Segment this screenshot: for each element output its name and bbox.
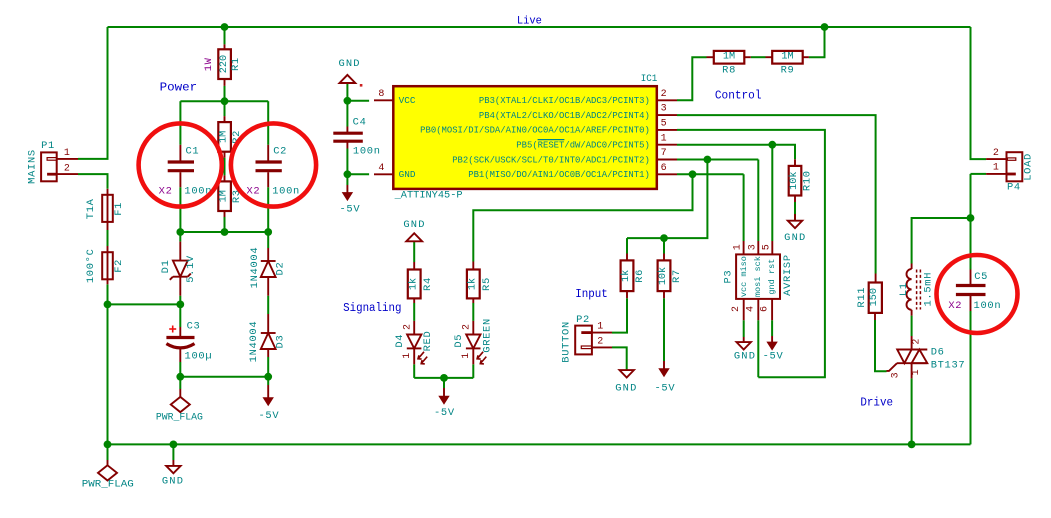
node VCC junction at C4 top	[344, 97, 352, 105]
wire R3 bottom	[224, 217, 226, 232]
svg-text:2: 2	[462, 324, 473, 330]
svg-text:P1: P1	[41, 140, 55, 152]
svg-text:2: 2	[661, 89, 667, 100]
svg-text:PB1(MISO/DO/AIN1/OC0B/OC1A/PCI: PB1(MISO/DO/AIN1/OC0B/OC1A/PCINT1)	[468, 169, 650, 180]
svg-text:C5: C5	[974, 271, 988, 283]
svg-text:1: 1	[597, 322, 603, 333]
power symbol -5V (below LEDs)	[443, 388, 445, 396]
resistor R10 10k	[794, 159, 796, 166]
wire R8-R9 link	[751, 56, 766, 58]
wire triac bottom	[911, 378, 913, 444]
svg-text:F1: F1	[113, 202, 125, 216]
svg-text:vcc miso: vcc miso	[739, 256, 749, 297]
wire C5 bottom column	[970, 311, 972, 444]
svg-text:D5: D5	[453, 334, 465, 348]
node LED -5V junction	[440, 374, 448, 382]
wire node row y304	[108, 303, 181, 305]
wire D1 top	[179, 232, 181, 242]
wire pin7 branch to input	[627, 160, 707, 239]
capacitor C3 100µ electrolytic	[179, 327, 181, 338]
svg-text:3: 3	[890, 372, 901, 378]
wire node row y232	[180, 231, 268, 233]
wire L1 bottom	[911, 316, 913, 336]
svg-text:RED: RED	[422, 331, 434, 352]
svg-text:LOAD: LOAD	[1023, 153, 1035, 181]
svg-text:100°C: 100°C	[85, 248, 97, 283]
svg-text:VCC: VCC	[399, 95, 416, 106]
svg-text:1: 1	[911, 369, 922, 375]
svg-text:1: 1	[64, 148, 70, 159]
ground GND (below P3)	[743, 337, 745, 342]
svg-text:P3: P3	[723, 270, 735, 284]
capacitor C1 X2 100n	[179, 145, 181, 161]
svg-text:GND: GND	[734, 351, 756, 363]
svg-text:D4: D4	[394, 334, 406, 348]
svg-text:D3: D3	[275, 335, 287, 349]
svg-text:PWR_FLAG: PWR_FLAG	[156, 412, 203, 423]
svg-text:_ATTINY45-P: _ATTINY45-P	[394, 191, 463, 202]
wire IC pin7	[677, 159, 758, 161]
svg-text:R1: R1	[230, 57, 242, 71]
svg-text:Signaling: Signaling	[343, 302, 401, 315]
wire P4 pin2 column	[971, 27, 987, 159]
wire P1 pin2 to fuse column	[78, 174, 108, 189]
svg-text:BT137: BT137	[931, 360, 966, 372]
wire IC pin3 to R11	[677, 115, 876, 273]
node triac bottom junction	[908, 441, 916, 449]
svg-text:10k: 10k	[788, 172, 800, 190]
resistor R7 10k	[663, 254, 665, 261]
svg-text:X2: X2	[159, 186, 173, 198]
svg-text:220: 220	[219, 55, 230, 73]
svg-text:1: 1	[461, 353, 472, 359]
svg-text:R8: R8	[722, 65, 736, 77]
pin 6 PB1 of IC1	[657, 173, 677, 175]
wire R6 to P2 pin1	[612, 298, 627, 332]
wire GND stem above R4	[413, 241, 415, 262]
svg-text:R10: R10	[802, 170, 814, 191]
triac D6 BT137	[911, 336, 913, 350]
node Live/R9 junction	[821, 23, 829, 31]
node D3/-5V junction	[264, 373, 272, 381]
svg-text:1M: 1M	[723, 51, 735, 62]
wire R5 bottom	[472, 303, 474, 321]
node R3 junction	[221, 228, 229, 236]
svg-text:1W: 1W	[203, 57, 215, 71]
wire AVRISP pin2 to GND	[743, 320, 745, 337]
node Live/R1 junction	[221, 23, 229, 31]
wire R2-R3 link	[224, 158, 226, 176]
svg-text:-5V: -5V	[258, 410, 279, 422]
wire R11 bottom to gate	[875, 320, 887, 371]
wire R9 to Live	[809, 27, 825, 57]
wire AVRISP pin4 to mosi run	[757, 320, 759, 377]
svg-text:Live: Live	[517, 15, 542, 27]
svg-text:5.1V: 5.1V	[185, 255, 197, 283]
node GND(-5V) junction at C4 bottom	[344, 170, 352, 178]
svg-text:1M: 1M	[219, 131, 230, 143]
resistor R8 1M	[707, 56, 714, 58]
ground GND (bottom-left)	[172, 460, 174, 466]
svg-text:R4: R4	[422, 277, 434, 291]
svg-text:1k: 1k	[407, 278, 419, 290]
resistor R6 1k	[626, 254, 628, 261]
node bottom rail PWR_FLAG junction	[104, 441, 112, 449]
svg-text:100n: 100n	[974, 300, 1002, 312]
diode D2 1N4004	[267, 248, 269, 262]
wire rst column	[771, 145, 773, 241]
node C5/L1 junction	[967, 214, 975, 222]
power flag PWR_FLAG (C3)	[179, 389, 181, 397]
svg-text:6: 6	[661, 163, 667, 174]
wire R10 bottom	[794, 202, 796, 221]
svg-text:150: 150	[869, 288, 880, 306]
svg-text:X2: X2	[246, 186, 260, 198]
svg-text:R5: R5	[481, 277, 493, 291]
svg-text:-5V: -5V	[339, 203, 360, 215]
wire D2 top	[267, 232, 269, 248]
svg-text:D1: D1	[160, 259, 172, 273]
svg-text:R11: R11	[856, 287, 868, 308]
fuse F1 T1A	[107, 189, 109, 195]
wire node row y376	[180, 376, 268, 378]
op IC U1: ATTINY45-P microcontroller IC1	[393, 86, 657, 189]
wire C4 -5V stem	[346, 174, 348, 185]
svg-text:X2: X2	[948, 300, 962, 312]
pin 1 PB5 of IC1	[657, 144, 677, 146]
svg-text:R9: R9	[781, 65, 795, 77]
svg-text:GND: GND	[399, 169, 416, 180]
svg-text:C3: C3	[187, 321, 201, 333]
wire R1 bottom lead	[224, 86, 226, 101]
svg-text:GND: GND	[615, 383, 637, 395]
svg-text:P2: P2	[576, 314, 590, 326]
wire IC pin1 to R10	[677, 145, 795, 160]
wire C1 bottom	[179, 187, 181, 232]
node fuse/neutral junction	[104, 301, 112, 309]
svg-text:-5V: -5V	[763, 351, 784, 363]
svg-text:PWR_FLAG: PWR_FLAG	[82, 479, 134, 490]
capacitor C4 100n	[346, 127, 348, 134]
svg-text:6: 6	[760, 306, 771, 312]
wire C3 bottom	[179, 362, 181, 377]
svg-text:2: 2	[64, 163, 70, 174]
capacitor C2 X2 100n	[267, 145, 269, 161]
node R1/R2 junction	[221, 97, 229, 105]
svg-text:GREEN: GREEN	[481, 318, 493, 353]
svg-text:100n: 100n	[353, 146, 381, 158]
svg-text:-5V: -5V	[654, 383, 675, 395]
wire C2 bottom	[267, 187, 269, 232]
pin 3 PB4 of IC1	[657, 114, 677, 116]
svg-text:1N4004: 1N4004	[248, 321, 260, 363]
wire D1 bottom	[179, 296, 181, 305]
wire R6 top lead	[626, 238, 628, 253]
svg-text:Drive: Drive	[860, 397, 893, 410]
svg-text:7: 7	[661, 148, 667, 159]
svg-text:GND: GND	[403, 219, 425, 231]
connector P2 BUTTON	[575, 326, 592, 355]
resistor R11 150	[875, 274, 877, 283]
resistor R2 1M	[224, 116, 226, 122]
svg-text:PB4(XTAL2/CLKO/OC1B/ADC2/PCINT: PB4(XTAL2/CLKO/OC1B/ADC2/PCINT4)	[479, 110, 650, 121]
wire D3 bottom	[267, 357, 269, 377]
wire left rail to P1 pin1	[78, 27, 108, 159]
svg-text:5: 5	[661, 119, 667, 130]
wire D5 bottom	[472, 364, 474, 378]
svg-text:R6: R6	[634, 269, 646, 283]
svg-text:mosi sck: mosi sck	[753, 256, 763, 297]
svg-text:BUTTON: BUTTON	[560, 321, 572, 363]
overline on RESET	[538, 139, 565, 141]
fuse F2 100°C thermal	[102, 252, 113, 279]
resistor R3 1M	[224, 175, 226, 181]
wire -5V stem below D3	[267, 377, 269, 385]
svg-text:P4: P4	[1007, 181, 1021, 193]
ground GND (below R10)	[794, 214, 796, 221]
wire AVRISP pin6 stem	[771, 320, 773, 336]
svg-text:Control: Control	[715, 90, 762, 103]
annotation circle around C2	[231, 123, 316, 206]
wire C4 GND stem	[346, 83, 348, 101]
svg-text:PB5(RESET/dW/ADC0/PCINT5): PB5(RESET/dW/ADC0/PCINT5)	[516, 140, 650, 151]
power symbol -5V (below C4)	[346, 185, 348, 193]
svg-text:GND: GND	[338, 58, 360, 70]
wire GND stem bottom-left	[172, 444, 174, 460]
wire bottom rail	[108, 443, 971, 445]
svg-text:C2: C2	[273, 146, 287, 158]
svg-text:3: 3	[661, 104, 667, 115]
wire R2 top	[224, 101, 226, 116]
wire R4 bottom	[413, 303, 415, 321]
wire D2-D3 link	[267, 296, 269, 314]
diode D3 1N4004	[267, 314, 269, 333]
inductor L1 1.5mH	[911, 264, 913, 270]
svg-text:1: 1	[993, 163, 999, 174]
svg-text:Input: Input	[575, 288, 608, 301]
resistor R9 1M	[766, 56, 773, 58]
power symbol -5V (below D3)	[267, 385, 269, 398]
node C1/D1 junction	[176, 228, 184, 236]
power flag PWR_FLAG (bottom-left)	[107, 460, 109, 465]
wire LED row	[414, 377, 473, 379]
wire IC pin6	[677, 173, 744, 175]
wire Live top rail	[108, 26, 971, 28]
wire C3 top	[179, 304, 181, 327]
svg-text:100n: 100n	[272, 186, 300, 198]
svg-text:PB3(XTAL1/CLKI/OC1B/ADC3/PCINT: PB3(XTAL1/CLKI/OC1B/ADC3/PCINT3)	[479, 95, 650, 106]
node C2/D2 junction	[264, 228, 272, 236]
capacitor C5 X2 100n	[970, 270, 972, 286]
svg-text:10k: 10k	[657, 267, 669, 285]
svg-text:1k: 1k	[620, 270, 632, 282]
ground GND (below P2)	[620, 370, 634, 377]
resistor R1 220 1W	[224, 44, 226, 49]
LED D5 GREEN	[472, 321, 474, 335]
svg-text:GND: GND	[162, 476, 184, 488]
wire C5 top column	[970, 174, 972, 270]
connector P1 MAINS	[41, 152, 57, 181]
svg-text:1: 1	[661, 133, 667, 144]
svg-text:100µ: 100µ	[185, 350, 213, 362]
svg-text:4: 4	[378, 163, 384, 174]
wire sck column	[757, 160, 759, 242]
wire IC pin8	[347, 100, 369, 102]
svg-text:L1: L1	[898, 282, 910, 296]
wire IC pin5 to AVRISP mosi	[677, 130, 825, 377]
svg-text:gnd rst: gnd rst	[767, 259, 777, 295]
svg-text:1.5mH: 1.5mH	[922, 272, 934, 307]
wire PWR_FLAG2 stem	[179, 377, 181, 389]
pin 5 PB0 of IC1	[657, 129, 677, 131]
svg-text:2: 2	[993, 148, 999, 159]
svg-text:IC1: IC1	[641, 73, 658, 85]
annotation circle around C5	[937, 255, 1018, 333]
svg-text:T1A: T1A	[85, 198, 97, 219]
svg-text:2: 2	[731, 306, 742, 312]
wire P2 pin2 to GND	[612, 347, 627, 370]
node pin6 junction	[689, 170, 697, 178]
svg-text:GND: GND	[784, 232, 806, 244]
svg-text:3: 3	[747, 244, 758, 250]
svg-text:F2: F2	[113, 259, 125, 273]
wire L1 top	[912, 218, 971, 264]
wire C4 bottom lead	[346, 149, 348, 175]
node pin1/rst junction	[768, 141, 776, 149]
node R7 junction	[660, 234, 668, 242]
annotation circle around C1	[139, 123, 222, 206]
svg-text:AVRISP: AVRISP	[782, 254, 794, 296]
wire miso column	[743, 174, 745, 241]
wire IC pin4	[347, 173, 369, 175]
node pin7 junction	[704, 156, 712, 164]
svg-text:1: 1	[402, 353, 413, 359]
wire node row y101	[180, 100, 268, 102]
wire R1 top lead	[224, 27, 226, 44]
node bottom rail GND junction	[170, 441, 178, 449]
wire R7 top lead	[663, 238, 665, 253]
svg-text:1: 1	[733, 244, 744, 250]
node D1 cathode junction	[176, 301, 184, 309]
wire below F2	[107, 284, 109, 304]
svg-text:Power: Power	[160, 82, 198, 95]
svg-text:1k: 1k	[466, 278, 478, 290]
svg-text:D2: D2	[275, 262, 287, 276]
svg-text:2: 2	[403, 324, 414, 330]
wire C1 top	[179, 101, 181, 145]
connector P4 LOAD	[1007, 152, 1023, 181]
zener diode D1 5.1V	[179, 242, 181, 261]
svg-text:R7: R7	[671, 269, 683, 283]
svg-text:8: 8	[378, 89, 384, 100]
svg-text:5: 5	[762, 244, 773, 250]
connector P3 AVRISP	[736, 254, 780, 299]
pin 2 PB3 of IC1	[657, 99, 677, 101]
wire R7 bottom	[663, 298, 665, 361]
svg-text:2: 2	[911, 339, 922, 345]
svg-text:PB0(MOSI/DI/SDA/AIN0/OC0A/OC1A: PB0(MOSI/DI/SDA/AIN0/OC0A/OC1A/AREF/PCIN…	[420, 125, 650, 136]
power symbol -5V (below R7)	[663, 361, 665, 369]
resistor R5 1k	[472, 262, 474, 270]
wire F1-F2 link	[107, 230, 109, 246]
wire left rail lower	[107, 304, 109, 444]
wire C4 top lead	[346, 101, 348, 127]
wire IC pin2 to R8	[677, 57, 707, 100]
power symbol -5V (below P3)	[771, 336, 773, 342]
resistor R4 1k	[413, 262, 415, 270]
pin 7 PB2 of IC1	[657, 159, 677, 161]
svg-text:C1: C1	[185, 146, 199, 158]
wire P4 pin1	[971, 173, 987, 175]
wire D4 bottom	[413, 364, 415, 378]
svg-text:PB2(SCK/USCK/SCL/T0/INT0/ADC1/: PB2(SCK/USCK/SCL/T0/INT0/ADC1/PCINT2)	[452, 154, 650, 165]
LED D4 RED	[413, 321, 415, 335]
svg-text:1M: 1M	[219, 190, 230, 202]
wire PWR_FLAG1 stem	[107, 444, 109, 460]
svg-text:2: 2	[597, 337, 603, 348]
wire C2 top	[267, 101, 269, 145]
svg-text:MAINS: MAINS	[27, 149, 39, 184]
svg-text:4: 4	[746, 306, 757, 312]
svg-text:C4: C4	[353, 117, 367, 129]
svg-text:-5V: -5V	[434, 407, 455, 419]
wire -5V stem signaling	[443, 378, 445, 388]
wire pin6 branch to R5	[473, 174, 692, 261]
svg-text:1N4004: 1N4004	[249, 247, 261, 289]
node C3 bottom junction	[176, 373, 184, 381]
svg-text:D6: D6	[931, 347, 945, 359]
svg-text:1M: 1M	[781, 51, 793, 62]
